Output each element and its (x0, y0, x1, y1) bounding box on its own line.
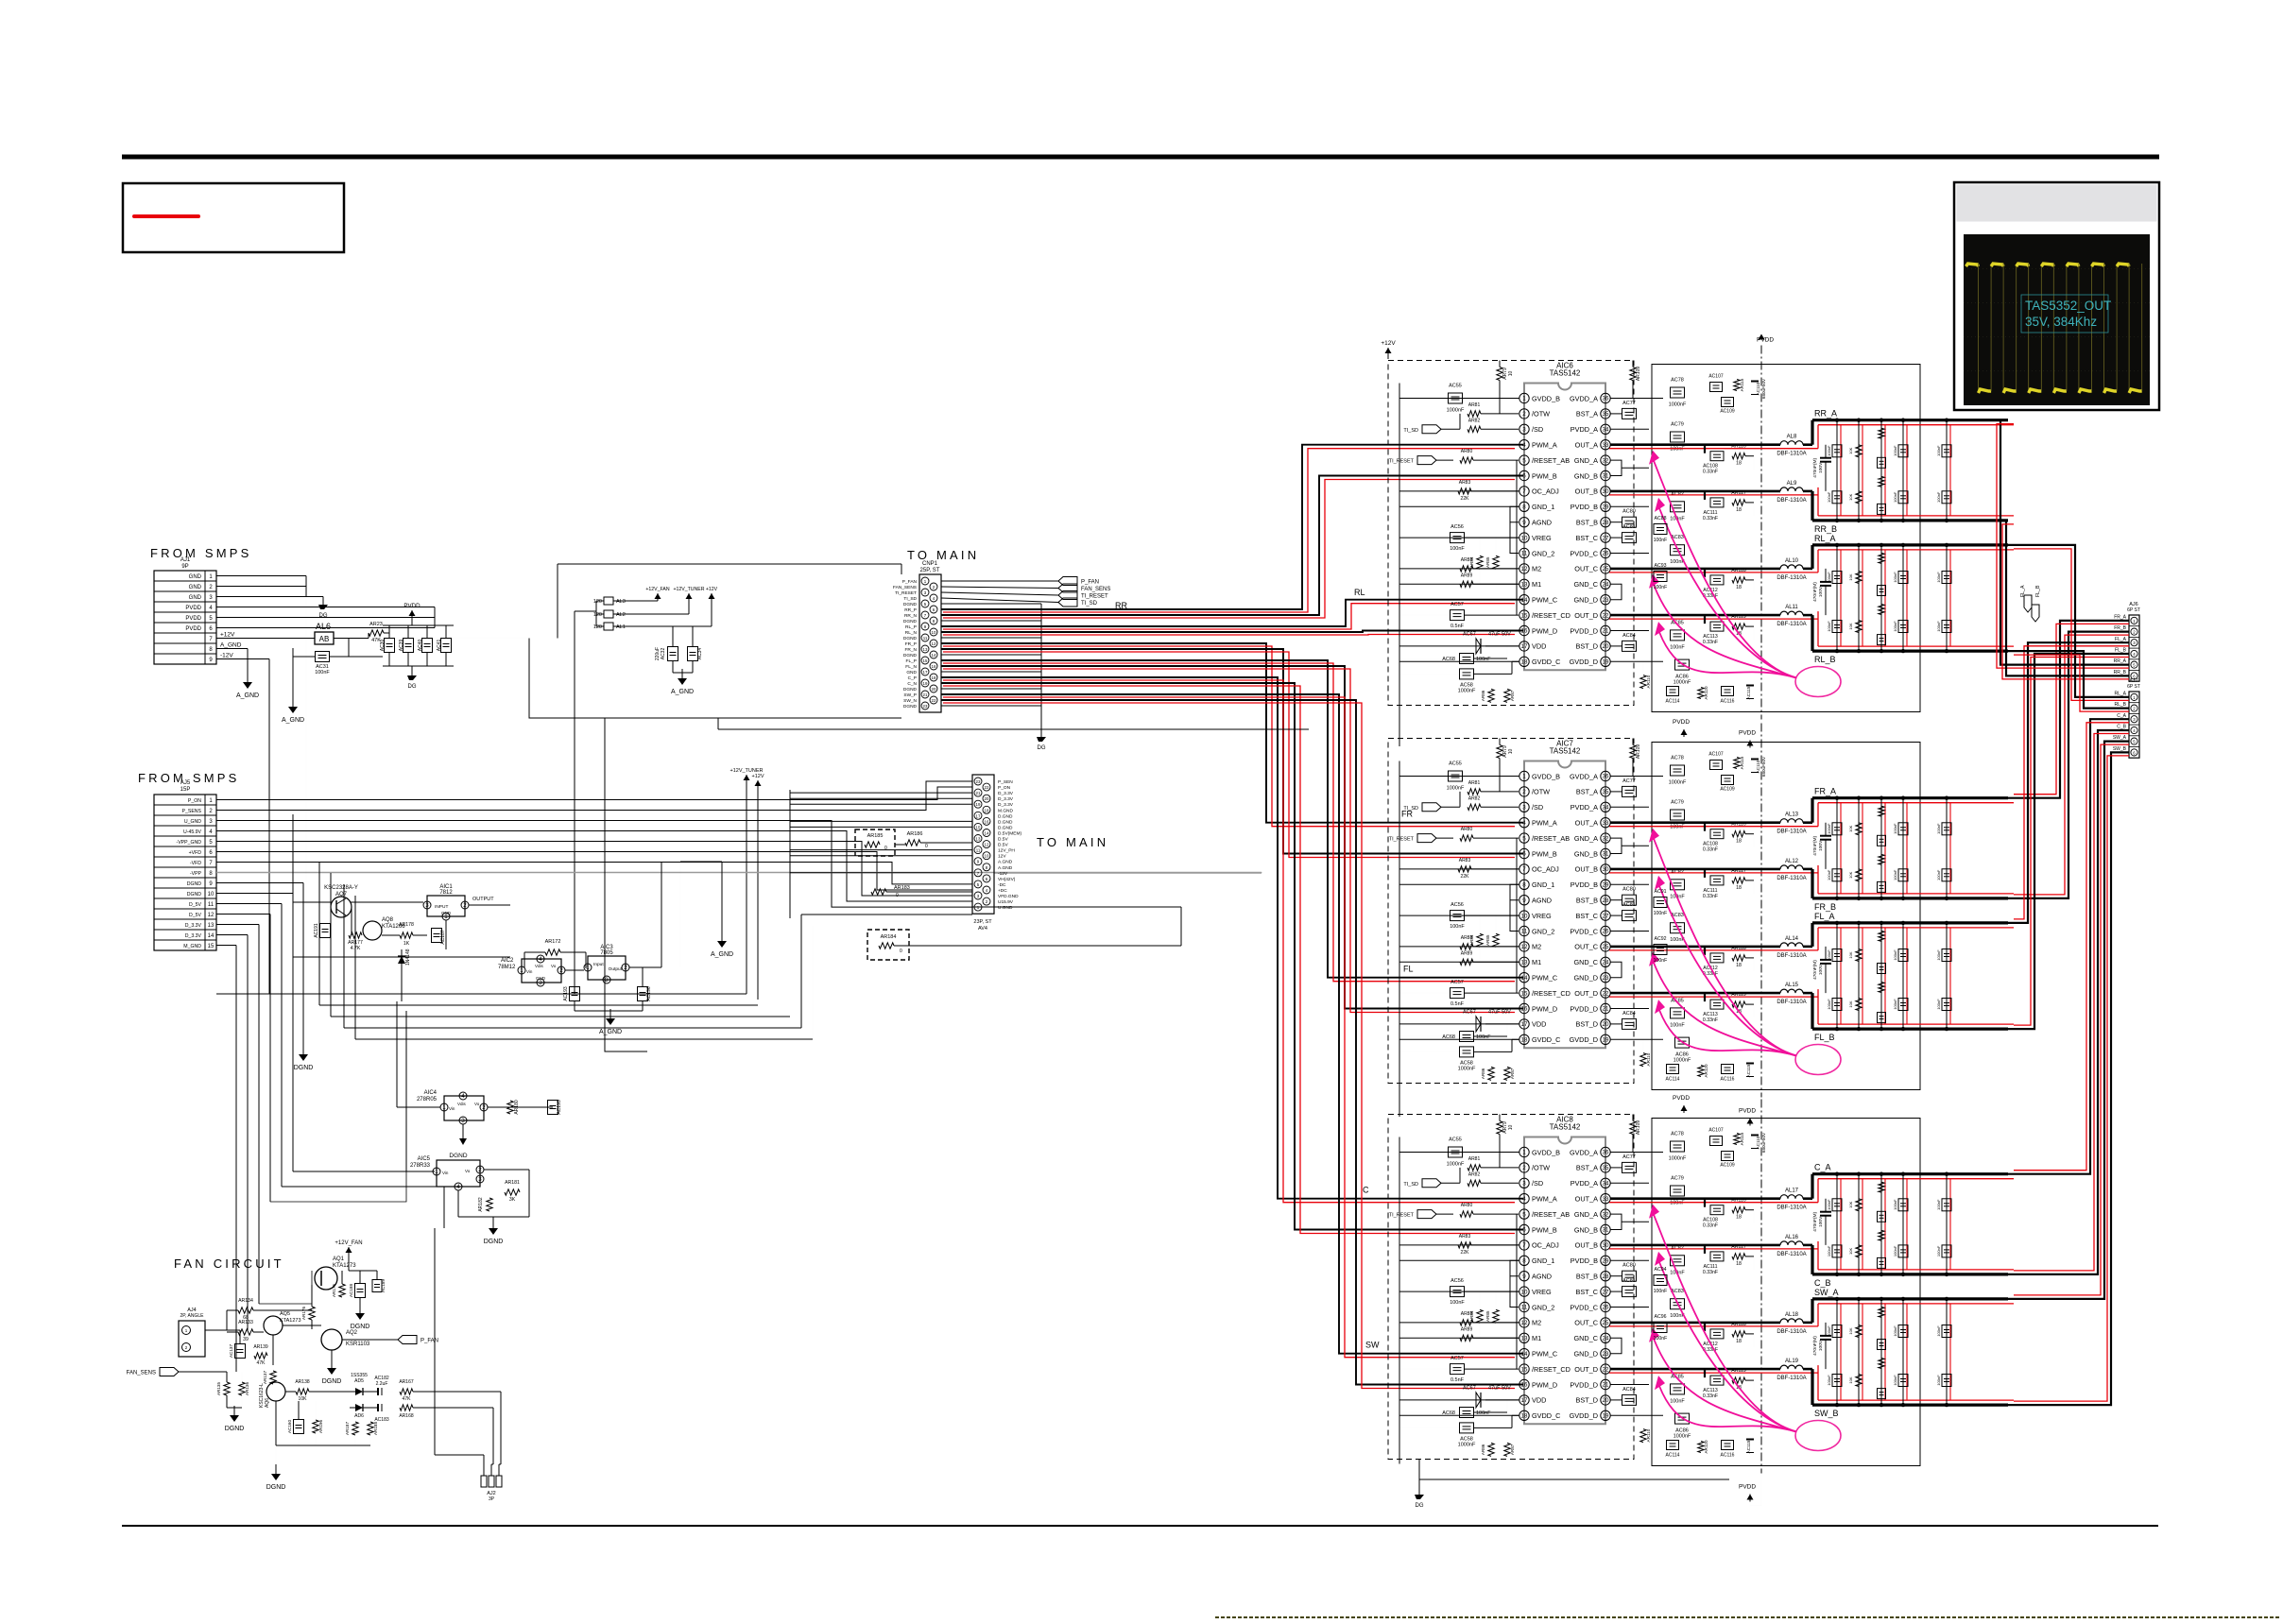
svg-text:100nF: 100nF (1936, 621, 1941, 632)
wire FR_B rail (1812, 897, 2008, 899)
svg-text:TO MAIN: TO MAIN (907, 548, 979, 562)
svg-text:AC84: AC84 (1622, 1387, 1636, 1393)
wire RL negative (black+red pair) (941, 631, 1524, 633)
svg-text:KSR1103: KSR1103 (346, 1342, 370, 1347)
svg-text:680uF50V: 680uF50V (1761, 1132, 1766, 1153)
wire RL positive (black+red pair) (941, 600, 1524, 626)
svg-text:14: 14 (985, 831, 989, 836)
svg-text:BST_A: BST_A (1576, 410, 1598, 419)
svg-text:GND_2: GND_2 (1532, 549, 1554, 557)
wire AGND bracket (AIC6) (1510, 506, 1519, 521)
svg-text:PVDD_A: PVDD_A (1571, 803, 1598, 812)
svg-text:GVDD_B: GVDD_B (1532, 394, 1560, 402)
ground arrow A_GND (mid) (721, 932, 723, 941)
capacitor AC191 100nF (320, 924, 331, 938)
svg-text:AL6: AL6 (316, 622, 331, 631)
svg-text:10: 10 (1521, 535, 1528, 541)
svg-text:7812: 7812 (439, 890, 453, 896)
svg-text:0.33nF: 0.33nF (1703, 1017, 1718, 1023)
svg-text:GND: GND (441, 911, 452, 915)
svg-text:AC55: AC55 (1449, 1137, 1462, 1143)
net flag FAN_SENS (160, 1368, 179, 1376)
resistor AR168 47K (400, 1405, 413, 1410)
capacitor AC78 1000nF (AIC6) (1671, 387, 1685, 398)
svg-text:15: 15 (1521, 990, 1528, 997)
AIC8 pin 6 PWM_B (1519, 1224, 1529, 1234)
svg-text:20: 20 (1603, 1397, 1609, 1404)
resistor AR119 18 snubber (1732, 1377, 1745, 1383)
AIC7 pin 2 /OTW (1519, 787, 1529, 796)
PVDD bypass capacitor bank AC30 AC39 AC40 AC41 (383, 624, 454, 626)
svg-text:FL_B: FL_B (2035, 585, 2041, 597)
svg-text:0: 0 (925, 844, 928, 849)
AIC6 pin 6 PWM_B (1519, 470, 1529, 480)
svg-text:GVDD_A: GVDD_A (1570, 1148, 1598, 1156)
resistor AR109 10 (AIC8) (1630, 1121, 1636, 1135)
svg-text:TAS5142: TAS5142 (1550, 1123, 1581, 1132)
AIC8 pin 10 VREG (1519, 1287, 1529, 1296)
svg-text:100nF: 100nF (1936, 823, 1941, 834)
AIC8 pin 9 AGND (1519, 1272, 1529, 1281)
svg-text:DGND: DGND (266, 1484, 286, 1491)
svg-text:D_5V: D_5V (189, 913, 202, 918)
capacitor AC82 100nF (AIC8) (1671, 1256, 1685, 1266)
svg-text:100nF: 100nF (1670, 644, 1685, 650)
AIC6 pin 12 M2 (1519, 564, 1529, 573)
svg-text:AR117: AR117 (1731, 490, 1746, 496)
svg-text:22: 22 (1603, 612, 1609, 619)
svg-text:15: 15 (208, 944, 215, 949)
svg-text:OUT_B: OUT_B (1575, 1241, 1598, 1250)
svg-text:120: 120 (593, 612, 602, 618)
svg-text:AR81: AR81 (1468, 1156, 1481, 1162)
bottom bypass cluster (AIC6) (1667, 687, 1679, 696)
svg-text:0.33nF: 0.33nF (1703, 894, 1718, 899)
svg-text:AC56: AC56 (1450, 902, 1464, 908)
svg-text:C_A: C_A (2117, 713, 2126, 719)
svg-text:AR134: AR134 (238, 1298, 253, 1304)
capacitor AC188 100uF 25V (355, 1284, 366, 1298)
svg-text:100nF: 100nF (1654, 1336, 1668, 1342)
svg-text:FL_B: FL_B (1814, 1033, 1835, 1042)
resistor AR87 10 (AIC8) (1504, 1443, 1510, 1456)
wire OUT_D thick (AIC6) (1610, 614, 1780, 617)
svg-text:AL2: AL2 (616, 612, 626, 618)
capacitor AC79 100nF (AIC7) (1671, 810, 1685, 820)
svg-text:PWM_D: PWM_D (1532, 626, 1557, 635)
AIC6 pin 35 BST_A (1601, 409, 1610, 419)
svg-text:PVDD: PVDD (185, 626, 201, 632)
svg-text:+12V: +12V (752, 774, 764, 779)
svg-text:VH(42V): VH(42V) (998, 877, 1016, 882)
AIC6 pin 19 GVDD_D (1601, 657, 1610, 666)
svg-text:DGND: DGND (903, 636, 918, 641)
svg-text:9P: 9P (181, 564, 188, 570)
svg-text:11: 11 (1521, 551, 1528, 557)
svg-text:AR120: AR120 (1704, 1064, 1708, 1077)
svg-text:AIC7: AIC7 (1556, 740, 1573, 748)
AIC6 pin 14 PWM_C (1519, 595, 1529, 605)
PVDD dash-dot rail (AIC8) (1760, 1100, 1762, 1474)
AIC8 pin 33 OUT_A (1601, 1194, 1610, 1204)
svg-text:DGND: DGND (903, 653, 918, 658)
filter leg at x=1991 of RR_A (1880, 420, 1882, 521)
svg-text:D.GND: D.GND (998, 825, 1013, 830)
svg-text:P_FAN: P_FAN (902, 579, 918, 585)
capacitor AC183 2.2uF 50V (377, 1404, 379, 1411)
svg-text:FROM SMPS: FROM SMPS (150, 546, 252, 560)
svg-text:Vin: Vin (526, 969, 533, 974)
svg-text:10K: 10K (1848, 573, 1853, 580)
svg-text:AR110: AR110 (1646, 675, 1651, 688)
svg-text:TAS5352_OUT: TAS5352_OUT (2025, 299, 2111, 313)
svg-text:AIC6: AIC6 (1556, 362, 1573, 370)
resistor AR87 10 (AIC7) (1504, 1067, 1510, 1080)
svg-text:18: 18 (1521, 1037, 1528, 1044)
svg-text:18: 18 (1521, 1413, 1528, 1420)
svg-text:19: 19 (976, 802, 981, 807)
svg-text:10: 10 (932, 630, 936, 635)
wire GVDD rail left of AIC8 (1399, 1137, 1400, 1464)
AIC7 pin 24 GND_C (1601, 957, 1610, 966)
wire speaker route RR_B (2006, 521, 2129, 676)
wire GVDD_C stub (AIC6) (1474, 673, 1512, 675)
resistor AR87 10 (AIC6) (1504, 689, 1510, 702)
svg-text:GND_A: GND_A (1574, 456, 1598, 465)
svg-text:34: 34 (1603, 805, 1609, 812)
wire RR_B rail (1812, 519, 2008, 521)
capacitor AC79 100nF (AIC6) (1671, 432, 1685, 442)
svg-text:AC94: AC94 (1655, 1267, 1667, 1273)
svg-text:OUT_B: OUT_B (1575, 487, 1598, 496)
svg-text:23: 23 (1603, 1351, 1609, 1358)
svg-text:1: 1 (442, 1104, 446, 1111)
svg-text:100nF: 100nF (1893, 1375, 1897, 1386)
svg-text:4: 4 (539, 956, 542, 963)
svg-text:TI_SD: TI_SD (1403, 1182, 1418, 1188)
svg-text:AL12: AL12 (1785, 859, 1799, 864)
AIC6 pin 34 PVDD_A (1601, 424, 1610, 434)
AIC6 pin 2 /OTW (1519, 409, 1529, 419)
svg-text:78M12: 78M12 (498, 965, 516, 970)
svg-text:/RESET_AB: /RESET_AB (1532, 1210, 1570, 1219)
svg-text:A_GND: A_GND (711, 951, 733, 958)
svg-text:DG: DG (408, 684, 417, 690)
wire GVDD_A to bypass (AIC7) (1610, 776, 1663, 778)
svg-text:DGND: DGND (903, 704, 918, 709)
inductor AL16 DBF-1310A (1780, 1241, 1803, 1245)
svg-text:OUT_C: OUT_C (1574, 1319, 1598, 1327)
svg-text:U_GND: U_GND (184, 819, 201, 825)
svg-text:100nF: 100nF (1936, 445, 1941, 456)
resistor AR119 18 snubber (1732, 624, 1745, 629)
svg-text:10K: 10K (1848, 951, 1853, 958)
svg-text:10K: 10K (1848, 1327, 1853, 1334)
svg-text:M2: M2 (1532, 943, 1541, 951)
svg-text:AR88: AR88 (1461, 557, 1473, 563)
svg-text:1SS355: 1SS355 (351, 1373, 368, 1378)
svg-text:470nF(M): 470nF(M) (1812, 1336, 1818, 1356)
AIC7 pin 31 GND_B (1601, 848, 1610, 858)
red trace network C_A (1818, 1178, 2014, 1180)
wires AIC4 (397, 1106, 440, 1108)
svg-text:AC115: AC115 (1746, 1440, 1751, 1453)
svg-text:10: 10 (1508, 749, 1514, 755)
wire GVDD_C stub (AIC8) (1474, 1427, 1512, 1428)
svg-text:100nF: 100nF (1654, 585, 1668, 590)
capacitor 470nF(M)/100V across RL_A (1825, 569, 1827, 582)
svg-text:D.5V: D.5V (998, 837, 1008, 843)
svg-text:12: 12 (1521, 566, 1528, 573)
svg-text:24: 24 (1603, 582, 1609, 589)
svg-text:TI_SD: TI_SD (1403, 428, 1418, 434)
svg-text:AR83: AR83 (1459, 858, 1471, 863)
wire AGND bracket (AIC8) (1510, 1260, 1519, 1275)
svg-text:/RESET_CD: /RESET_CD (1532, 1365, 1571, 1374)
svg-text:M2: M2 (1532, 1319, 1541, 1327)
svg-text:AC110: AC110 (1756, 382, 1760, 395)
resistor AR110 10 (AIC7) (1640, 1053, 1646, 1067)
svg-text:AR119: AR119 (1731, 614, 1746, 620)
wire speaker route RL_B (2008, 651, 2129, 709)
svg-text:GND: GND (189, 585, 202, 590)
AIC7 pin 9 AGND (1519, 896, 1529, 905)
wire AL6 to filter cluster (334, 638, 369, 640)
capacitor AC57 0.5nF (AIC8) (1450, 1364, 1465, 1375)
inductor AL15 DBF-1310A (1780, 989, 1803, 993)
filter leg at x=2014 of SW_A (1902, 1299, 1904, 1405)
net flag FAN_SENS (1058, 584, 1077, 592)
resistor AR83 22K (AIC7) (1458, 866, 1471, 872)
AIC6 pin 27 BST_C (1601, 533, 1610, 542)
svg-text:AD6: AD6 (354, 1413, 364, 1419)
capacitor AC55 1000nF (AIC6) (1449, 393, 1463, 403)
svg-text:10K: 10K (1848, 1376, 1853, 1383)
svg-text:AR109: AR109 (1636, 367, 1641, 382)
svg-text:1: 1 (435, 1169, 438, 1175)
diode AD10 1N4148 (401, 949, 403, 983)
svg-text:D.GND: D.GND (998, 813, 1013, 819)
svg-text:AGND: AGND (1532, 519, 1552, 527)
wire FR_A rail (1812, 796, 2008, 799)
wire RESET_CD link (AIC8) (1516, 1214, 1518, 1369)
svg-text:10: 10 (1508, 371, 1514, 377)
capacitor AC78 1000nF (AIC8) (1671, 1141, 1685, 1152)
svg-text:10K: 10K (1848, 1248, 1853, 1255)
inductor AL12 DBF-1310A (1780, 865, 1803, 869)
svg-text:AL13: AL13 (1785, 812, 1799, 818)
svg-text:OC_ADJ: OC_ADJ (1532, 1241, 1559, 1250)
resistor AR85 10K (AIC7) (1493, 933, 1499, 947)
svg-text:36: 36 (1603, 1150, 1609, 1156)
stair wires from drops to fan area (293, 1171, 435, 1172)
resistor AR176 3.3K (309, 1307, 315, 1320)
filter leg at x=1967 of RL_A (1858, 545, 1860, 651)
AIC8 pin 3 /SD (1519, 1178, 1529, 1188)
svg-text:GND_C: GND_C (1573, 580, 1598, 589)
ground DGND (fan bottom) (275, 1464, 277, 1474)
svg-text:9: 9 (1522, 1274, 1526, 1280)
svg-text:AR86: AR86 (1481, 690, 1485, 701)
capacitor AC56 100nF (AIC7) (1450, 911, 1465, 921)
svg-text:0.33nF: 0.33nF (1703, 1270, 1718, 1275)
capacitor AC85 1000nF (AIC7) (1671, 1008, 1685, 1018)
svg-text:AC81: AC81 (1622, 1278, 1636, 1284)
wire speaker route FR_A (2008, 621, 2129, 798)
svg-text:32: 32 (1603, 835, 1609, 842)
svg-text:AC160: AC160 (287, 1420, 292, 1433)
wire OUT_A thick (AIC7) (1610, 821, 1780, 824)
wire RR_A rail (1812, 419, 2008, 421)
PVDD dash-dot rail (AIC6) (1760, 346, 1762, 720)
wire +12V feed vertical (575, 610, 596, 612)
svg-text:PVDD: PVDD (1739, 730, 1756, 737)
wires fan bias (209, 1329, 227, 1331)
svg-text:AV4: AV4 (978, 926, 987, 932)
ground DGND arrow below AJ5 drops (302, 1045, 304, 1054)
svg-text:RR: RR (1115, 601, 1127, 610)
svg-text:AC67: AC67 (1463, 1385, 1476, 1391)
svg-text:DGND: DGND (294, 1065, 314, 1071)
svg-text:28: 28 (1603, 520, 1609, 526)
svg-text:AB: AB (319, 635, 330, 643)
svg-text:DG: DG (1416, 1503, 1424, 1509)
capacitor AC82 100nF (AIC7) (1671, 880, 1685, 890)
svg-text:GND_B: GND_B (1574, 471, 1598, 480)
svg-text:278R05: 278R05 (417, 1097, 438, 1103)
svg-text:GVDD_C: GVDD_C (1532, 1035, 1560, 1044)
vertical dashed supply stubs bottom (1399, 704, 1400, 746)
capacitor 470nF(M)/100V across C_A (1825, 1199, 1827, 1212)
capacitor AC68 100nF (AIC6) (1460, 654, 1474, 664)
dashed box AR184 (867, 930, 909, 960)
svg-text:AR81: AR81 (1468, 780, 1481, 786)
ground arrow A_GND (AJ1) (247, 673, 249, 682)
svg-text:A_GND: A_GND (671, 689, 694, 695)
svg-text:26: 26 (1603, 929, 1609, 935)
regulator AIC3 7805 (588, 956, 626, 980)
svg-text:AC77: AC77 (1622, 778, 1636, 784)
svg-text:AC84: AC84 (1622, 633, 1636, 639)
svg-text:GND: GND (536, 976, 546, 981)
svg-text:100nF: 100nF (315, 670, 330, 675)
filter leg at x=1991 of FL_A (1880, 923, 1882, 1029)
svg-text:OUT_A: OUT_A (1575, 819, 1598, 828)
filter leg at x=1944 of RR_A (1836, 420, 1838, 521)
svg-text:18: 18 (985, 808, 989, 812)
svg-text:AC67: AC67 (1463, 1009, 1476, 1015)
AIC7 pin 21 PVDD_D (1601, 1003, 1610, 1013)
ground DG (blocks bottom) (1418, 1487, 1420, 1495)
legend red wire sample (134, 214, 198, 218)
filter leg at x=1944 of SW_A (1836, 1299, 1838, 1405)
wire OUT_C thick (AIC7) (1610, 946, 1780, 949)
AIC7 pin 28 BST_B (1601, 896, 1610, 905)
red trace network RL_A (1818, 549, 2014, 551)
filter leg at x=1944 of C_A (1836, 1174, 1838, 1274)
svg-text:AR184: AR184 (881, 934, 897, 940)
AIC7 pin 13 M1 (1519, 957, 1529, 966)
svg-text:18: 18 (932, 675, 936, 680)
svg-text:11: 11 (923, 636, 928, 641)
filter leg at x=2060 of FL_A (1946, 923, 1948, 1029)
svg-text:2: 2 (463, 902, 467, 909)
AIC8 pin 16 PWM_D (1519, 1379, 1529, 1389)
left bypass caps column between blocks (1654, 524, 1667, 535)
svg-text:AC114: AC114 (1666, 699, 1680, 705)
svg-text:PWM_A: PWM_A (1532, 441, 1557, 450)
svg-text:/RESET_CD: /RESET_CD (1532, 989, 1571, 998)
svg-text:FR_A: FR_A (1814, 787, 1836, 796)
svg-text:PVDD_A: PVDD_A (1571, 425, 1598, 434)
capacitor AC57 0.5nF (AIC6) (1450, 610, 1465, 621)
wire AIC2 to AIC3 (565, 969, 584, 971)
svg-text:AC93: AC93 (1655, 563, 1667, 569)
capacitor AC80 (AIC6) (1622, 517, 1637, 527)
inductor AL11 DBF-1310A (1780, 611, 1803, 615)
svg-text:GND_1: GND_1 (1532, 1256, 1554, 1265)
wire GND_A GND_B bracket (AIC6) (1610, 460, 1622, 475)
svg-text:AR196: AR196 (318, 1420, 323, 1433)
svg-text:25: 25 (1603, 944, 1609, 950)
svg-text:/SD: /SD (1532, 425, 1543, 434)
capacitor AC108 0.33nF snubber (1704, 823, 1706, 831)
svg-text:/SD: /SD (1532, 803, 1543, 812)
svg-text:OUT_D: OUT_D (1574, 1365, 1598, 1374)
svg-text:AL16: AL16 (1785, 1235, 1799, 1240)
svg-text:AC68: AC68 (1442, 1034, 1455, 1040)
svg-text:7: 7 (1522, 866, 1526, 873)
resistor AR138 10K (296, 1389, 309, 1394)
resistor AR80 0 (AIC7) (1436, 837, 1453, 839)
svg-text:KTA1273: KTA1273 (333, 1263, 356, 1269)
svg-text:12: 12 (1521, 1320, 1528, 1326)
resistor AR89 0 (AIC7) (1460, 959, 1473, 965)
svg-text:17: 17 (1521, 1397, 1528, 1404)
capacitor AC56 100nF (AIC8) (1450, 1287, 1465, 1297)
capacitor AC84 (AIC6) (1622, 641, 1637, 651)
svg-text:470nF(M): 470nF(M) (1812, 582, 1818, 602)
svg-text:1000nF: 1000nF (1674, 680, 1691, 686)
svg-text:25: 25 (1603, 1320, 1609, 1326)
net flag TI_RESET (AIC6) (1417, 456, 1436, 465)
svg-text:31: 31 (1603, 473, 1609, 480)
svg-text:PWM_A: PWM_A (1532, 819, 1557, 828)
svg-text:29: 29 (1603, 1258, 1609, 1265)
resistor AR83 22K (AIC6) (1458, 488, 1471, 494)
svg-text:100nF: 100nF (1827, 1325, 1831, 1337)
svg-text:33: 33 (1603, 442, 1609, 449)
svg-text:100nF: 100nF (1893, 445, 1897, 456)
svg-text:OUT_C: OUT_C (1574, 943, 1598, 951)
svg-text:AGND: AGND (1532, 1273, 1552, 1281)
resistor AR86 (AIC8) (1488, 1443, 1494, 1456)
svg-text:8: 8 (1522, 882, 1526, 889)
wire GVDD_C stub (AIC7) (1474, 1051, 1512, 1052)
svg-text:AR81: AR81 (1468, 402, 1481, 408)
svg-text:D.5V(MEM): D.5V(MEM) (998, 831, 1021, 837)
wire RL_A rail (1812, 543, 2008, 546)
svg-text:5: 5 (1522, 457, 1526, 464)
svg-text:3: 3 (1522, 427, 1526, 434)
wire from mid to block area (718, 728, 1309, 730)
resistor AR81 (AIC8) (1468, 1165, 1481, 1171)
resistor AR181 3K (505, 1189, 520, 1195)
filter leg at x=1991 of SW_A (1880, 1299, 1882, 1405)
svg-text:100nF: 100nF (1827, 869, 1831, 880)
wire RR negative (black+red pair) (941, 476, 1524, 616)
AIC7 pin 17 VDD (1519, 1019, 1529, 1029)
